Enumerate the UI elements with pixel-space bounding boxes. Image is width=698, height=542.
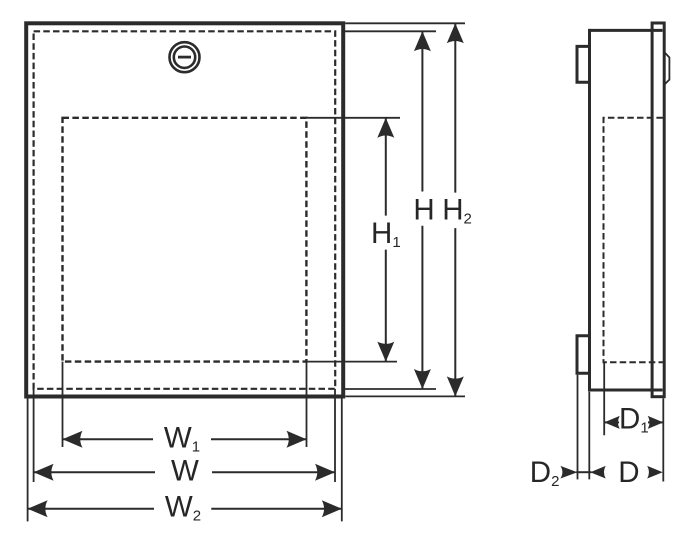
extension line W1 left: [62, 362, 64, 447]
front door dashed outline: [34, 31, 336, 389]
dimension line H: [421, 31, 423, 191]
extension line W2 left: [27, 396, 29, 521]
side view top hinge: [577, 46, 590, 82]
front inner panel dashed outline: [63, 118, 307, 362]
extension line H bottom: [345, 388, 436, 390]
extension line W right: [334, 389, 336, 482]
dimension line W2: [28, 508, 154, 510]
dimension line D1: [604, 421, 619, 423]
extension line W1 right: [306, 362, 308, 447]
extension line H2 top: [345, 22, 465, 24]
dimension line W1: [63, 438, 154, 440]
dimension arrow D2 (outside): [560, 466, 577, 479]
side view body bottom edge: [590, 389, 663, 392]
svg-text:W1: W1: [164, 422, 200, 456]
dimension line W: [34, 471, 155, 473]
extension line D1/D right: [662, 398, 664, 481]
extension line D left: [588, 392, 590, 480]
lock outer circle: [170, 42, 200, 72]
svg-text:H2: H2: [442, 194, 472, 228]
front view enclosure box: [26, 23, 343, 396]
extension line H1 top: [306, 117, 400, 119]
extension line H top: [345, 30, 436, 32]
svg-text:D2: D2: [530, 456, 560, 490]
extension line D1 left: [603, 362, 605, 435]
svg-text:D1: D1: [619, 403, 649, 437]
svg-text:W: W: [171, 454, 199, 487]
svg-text:H1: H1: [371, 217, 401, 251]
extension line W2 right: [341, 396, 343, 521]
extension line W left: [33, 389, 35, 482]
extension line H1 bottom: [306, 361, 397, 363]
dimension line D2 connector: [576, 471, 591, 473]
svg-text:H: H: [413, 194, 434, 227]
dimension line D: [590, 466, 606, 479]
svg-text:D: D: [618, 456, 639, 489]
side view body top edge: [590, 29, 663, 32]
dimension line H2: [454, 23, 456, 192]
side view bottom hinge: [577, 336, 590, 373]
svg-text:W2: W2: [165, 491, 201, 525]
side view body left wall: [588, 29, 591, 392]
dimension line H1: [385, 118, 387, 216]
extension line H2 bottom: [345, 395, 465, 397]
side view door strip: [652, 23, 664, 397]
lock slot: [178, 56, 191, 59]
side view lock bump: [664, 52, 669, 85]
side view dashed panel: [604, 118, 663, 362]
lock inner circle: [174, 47, 195, 68]
extension line D2 left: [577, 375, 579, 480]
